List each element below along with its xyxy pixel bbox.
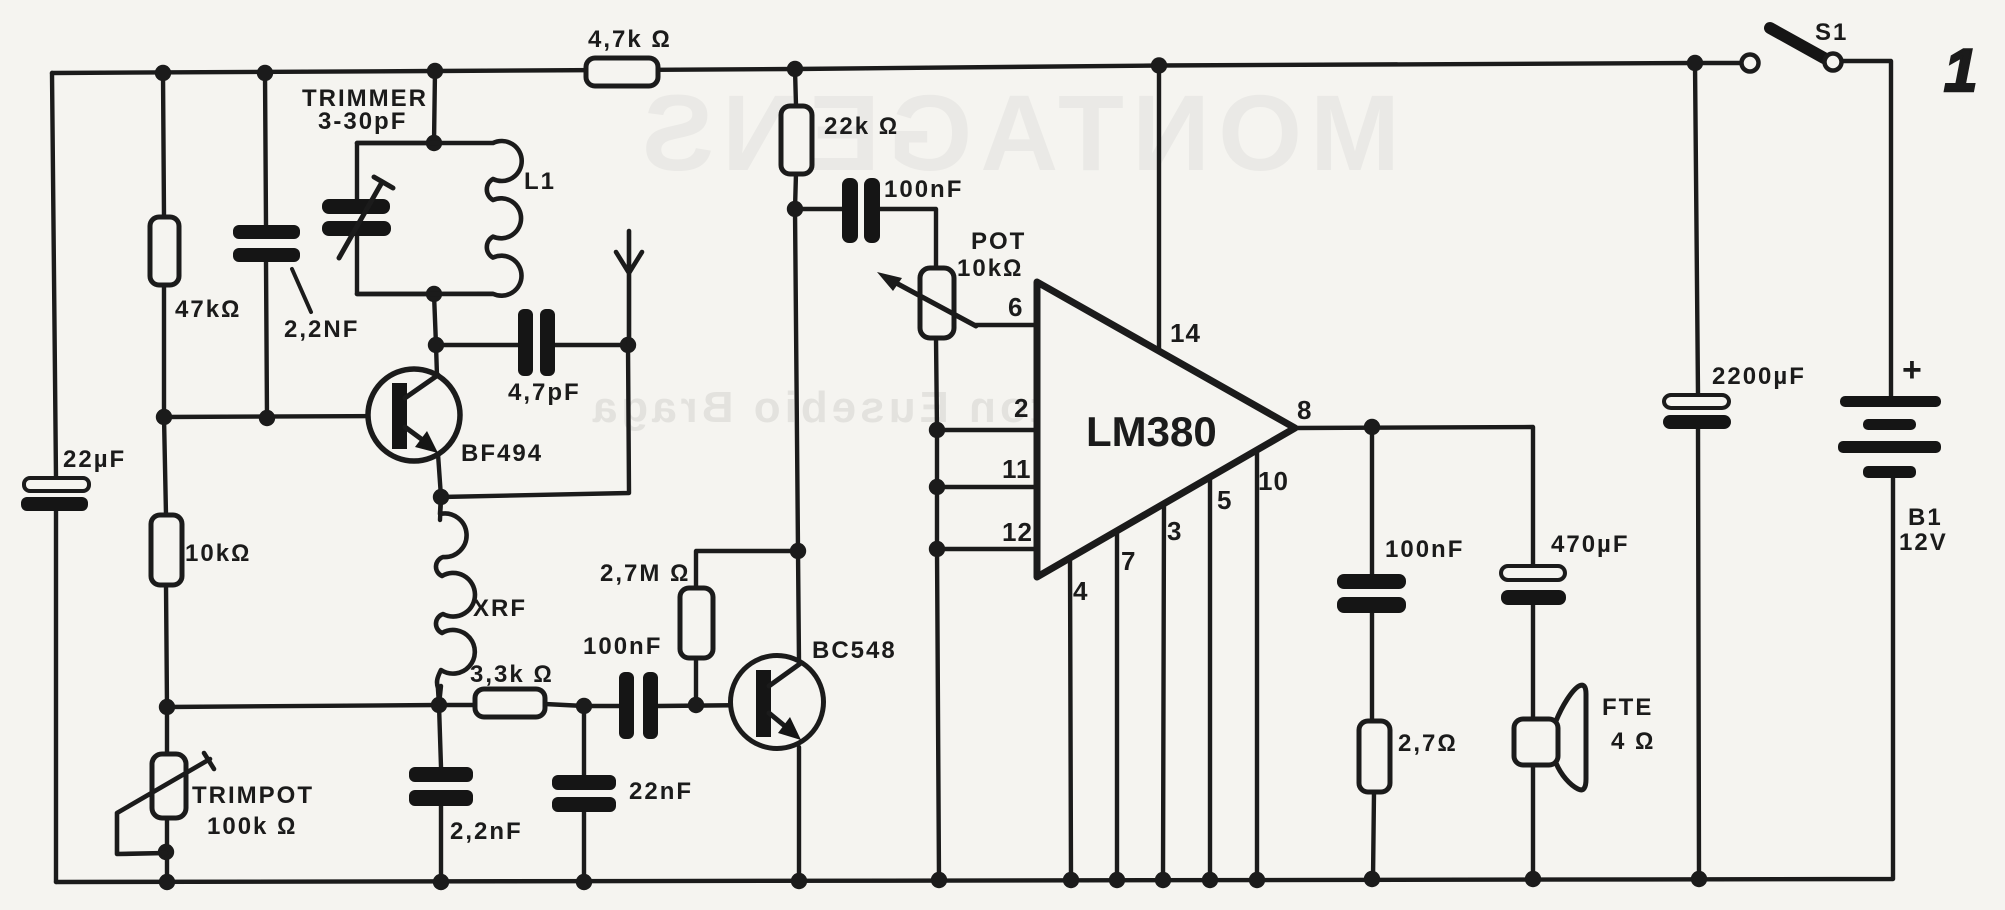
wire 2,2NF branch xyxy=(265,73,267,418)
wire pin 10 xyxy=(1255,450,1259,880)
trimmer capacitor arrow xyxy=(339,177,393,258)
trimmer capacitor plates xyxy=(322,199,391,236)
svg-text:4,7k Ω: 4,7k Ω xyxy=(588,26,672,53)
svg-text:10kΩ: 10kΩ xyxy=(957,255,1023,282)
wire pin 4 xyxy=(1070,558,1071,880)
svg-text:FTE: FTE xyxy=(1602,694,1653,721)
svg-text:3-30pF: 3-30pF xyxy=(318,108,407,135)
wire top rail xyxy=(52,63,1740,73)
svg-text:L1: L1 xyxy=(524,168,556,195)
svg-text:2200µF: 2200µF xyxy=(1712,363,1806,390)
svg-text:100nF: 100nF xyxy=(583,633,662,660)
wire 22nF branch xyxy=(582,706,586,882)
svg-text:3: 3 xyxy=(1167,516,1182,546)
wire 2,2nF branch xyxy=(439,705,441,882)
resistor R 10k body xyxy=(151,515,182,585)
potentiometer body xyxy=(920,268,954,338)
resistor R 2,7ohm body xyxy=(1359,721,1390,792)
wire emitter Q1 xyxy=(438,454,441,520)
svg-text:2,7Ω: 2,7Ω xyxy=(1398,730,1458,757)
wire antenna drop xyxy=(441,345,629,497)
wire pin 11 xyxy=(937,485,1037,489)
wire collector Q1 xyxy=(434,294,437,376)
resistor R 4,7k body xyxy=(586,58,658,86)
wire speaker branch xyxy=(1531,605,1535,879)
node emitter row junctions xyxy=(159,697,704,715)
wire 4,7pF link xyxy=(436,343,628,347)
wire pin 12 xyxy=(937,547,1037,551)
svg-text:22nF: 22nF xyxy=(629,778,693,805)
wire switch to battery xyxy=(1843,61,1891,398)
svg-text:2,2nF: 2,2nF xyxy=(450,818,523,845)
wire pin 6 xyxy=(976,323,1037,327)
inductor XRF xyxy=(436,497,475,704)
switch S1 xyxy=(1742,28,1842,72)
wire emitter Q2 xyxy=(797,747,801,881)
svg-text:BC548: BC548 xyxy=(812,637,897,664)
svg-text:12: 12 xyxy=(1002,517,1033,547)
svg-text:S1: S1 xyxy=(1815,19,1848,46)
node pin 8 xyxy=(1364,419,1380,435)
battery B1 plates xyxy=(1838,396,1941,478)
svg-text:7: 7 xyxy=(1121,546,1136,576)
node emitter Q1 xyxy=(433,489,449,505)
svg-text:2,7M Ω: 2,7M Ω xyxy=(600,560,690,587)
resistor R 3,3k body xyxy=(475,689,545,717)
wire pin 14 xyxy=(1157,66,1161,350)
antenna xyxy=(616,231,642,345)
watermark top xyxy=(634,72,1400,193)
svg-text:14: 14 xyxy=(1170,318,1201,348)
wire pin 8 output xyxy=(1295,427,1533,566)
node top rail junctions xyxy=(155,55,1703,81)
wire bottom rail xyxy=(56,477,1893,882)
svg-text:47kΩ: 47kΩ xyxy=(175,296,241,323)
capacitor 2200uF plates xyxy=(1663,395,1731,429)
svg-text:BF494: BF494 xyxy=(461,440,543,467)
wire emitter row xyxy=(167,704,757,707)
node trimpot wiper xyxy=(158,844,174,860)
capacitor 2,2nF plates xyxy=(409,767,473,806)
capacitor 470uF plates xyxy=(1501,566,1566,605)
transistor Q2 BC548 xyxy=(731,656,824,749)
svg-text:8: 8 xyxy=(1297,395,1312,425)
svg-text:2: 2 xyxy=(1014,393,1029,423)
wire base Q1 xyxy=(164,416,392,417)
capacitor 2,2NF leader line xyxy=(292,269,311,312)
svg-text:10kΩ: 10kΩ xyxy=(185,540,251,567)
svg-text:B1: B1 xyxy=(1908,504,1943,531)
wire tank left xyxy=(357,143,434,294)
wire pin 2 xyxy=(937,428,1037,432)
svg-text:TRIMPOT: TRIMPOT xyxy=(192,782,314,809)
node 4,7pF junctions xyxy=(428,337,636,353)
node bottom rail junctions xyxy=(159,871,1707,890)
capacitor 22nF plates xyxy=(552,775,616,812)
svg-text:100nF: 100nF xyxy=(1385,536,1464,563)
transistor Q1 BF494 xyxy=(368,369,460,461)
svg-text:+: + xyxy=(1902,351,1922,389)
wire left rail xyxy=(52,73,56,882)
svg-text:5: 5 xyxy=(1217,485,1232,515)
svg-text:470µF: 470µF xyxy=(1551,531,1630,558)
resistor R 22k body xyxy=(781,106,812,174)
svg-text:LM380: LM380 xyxy=(1086,408,1217,455)
node base Q1 junctions xyxy=(156,409,275,426)
svg-text:22µF: 22µF xyxy=(63,446,126,473)
svg-text:1: 1 xyxy=(1944,37,1977,104)
wire 100nF-2,7R branch xyxy=(1372,427,1374,879)
svg-text:3,3k Ω: 3,3k Ω xyxy=(470,661,554,688)
op-amp U1 LM380 xyxy=(1037,282,1295,577)
resistor R 2,7M body xyxy=(680,588,713,658)
wire pot bottom xyxy=(936,338,939,880)
wire XRF bottom xyxy=(439,686,441,705)
svg-text:100k Ω: 100k Ω xyxy=(207,813,298,840)
capacitor 4,7pF plates xyxy=(518,309,555,376)
capacitor 2,2NF plates xyxy=(233,225,300,262)
svg-text:4,7pF: 4,7pF xyxy=(508,379,581,406)
node pot pins xyxy=(929,422,945,557)
svg-text:22k Ω: 22k Ω xyxy=(824,113,899,140)
svg-text:XRF: XRF xyxy=(473,595,527,622)
node collector Q2 xyxy=(790,543,806,559)
svg-text:4 Ω: 4 Ω xyxy=(1611,728,1655,755)
wire 47k branch xyxy=(163,73,167,882)
wire 2,7M feedback xyxy=(696,551,798,705)
wire pin 3 xyxy=(1163,504,1164,880)
svg-text:POT: POT xyxy=(971,228,1026,255)
capacitor 100nF base plates xyxy=(619,672,658,739)
speaker FTE xyxy=(1514,685,1586,790)
svg-text:12V: 12V xyxy=(1899,529,1948,556)
wire 22k branch xyxy=(795,69,799,663)
trimpot wiper arrow xyxy=(117,753,214,854)
svg-text:10: 10 xyxy=(1258,466,1289,496)
trimpot body xyxy=(152,754,186,818)
svg-text:4: 4 xyxy=(1073,576,1088,606)
wire pin 7 xyxy=(1115,531,1119,880)
capacitor 100nF coupling plates xyxy=(842,178,880,243)
wire 2200uF branch xyxy=(1695,63,1699,879)
svg-text:MONTAGENS: MONTAGENS xyxy=(634,72,1400,193)
svg-text:6: 6 xyxy=(1008,292,1023,322)
inductor L1 xyxy=(357,141,522,296)
node tank junctions xyxy=(426,135,442,302)
capacitor 100nF output plates xyxy=(1337,574,1406,613)
wire 100nF coupling xyxy=(795,209,936,269)
resistor R 47k body xyxy=(150,217,179,285)
svg-text:11: 11 xyxy=(1002,454,1032,484)
svg-text:100nF: 100nF xyxy=(884,176,963,203)
capacitor 22uF plates xyxy=(21,478,89,511)
wire pin 5 xyxy=(1208,477,1212,880)
wire tank top xyxy=(434,71,435,143)
potentiometer wiper arrow xyxy=(877,272,976,326)
svg-text:2,2NF: 2,2NF xyxy=(284,316,359,343)
node 22k bottom xyxy=(787,201,803,217)
watermark middle xyxy=(589,383,1148,432)
